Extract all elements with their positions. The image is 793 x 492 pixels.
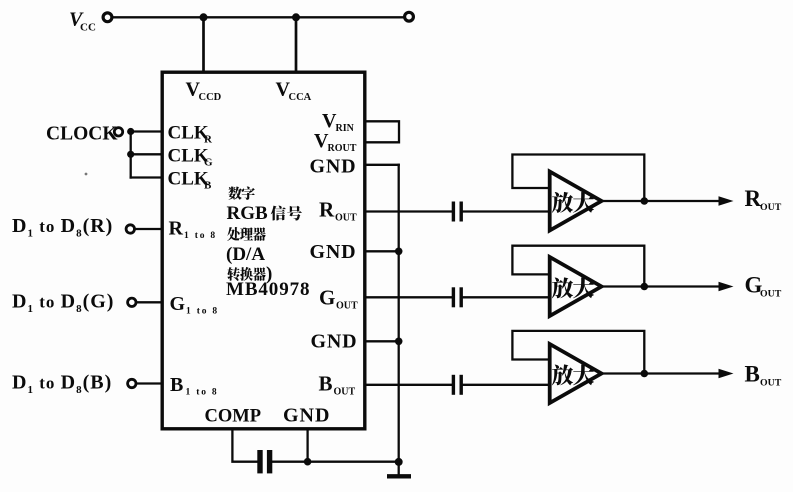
- junction Vcc/Vccd: [200, 13, 208, 21]
- IC U1 MB40978 body: [162, 72, 365, 429]
- wire C2 to amp U3 input: [463, 296, 551, 298]
- svg-text:OUT: OUT: [334, 387, 356, 398]
- svg-text:OUT: OUT: [760, 378, 782, 389]
- svg-text:OUT: OUT: [336, 301, 358, 312]
- wire CLK_R: [131, 130, 162, 132]
- capacitor C2 (G channel): [452, 287, 455, 307]
- svg-text:D1 to D8(B): D1 to D8(B): [12, 372, 112, 397]
- arrow R_OUT: [719, 196, 734, 206]
- svg-text:1 to 8: 1 to 8: [186, 307, 219, 317]
- svg-text:GND: GND: [310, 156, 357, 178]
- terminal D(B): [128, 379, 136, 387]
- junction GND bus bottom: [395, 458, 403, 466]
- svg-text:G: G: [170, 293, 186, 315]
- svg-text:B: B: [170, 374, 183, 396]
- svg-text:CCA: CCA: [289, 92, 312, 103]
- svg-text:OUT: OUT: [760, 202, 782, 213]
- junction CLOCK/CLKG: [127, 151, 134, 158]
- svg-text:R: R: [745, 186, 762, 211]
- capacitor C3 (B channel): [452, 375, 455, 395]
- IC U1 description line1 数字: [228, 187, 242, 200]
- wire C4 to GND: [272, 461, 398, 463]
- arrow G_OUT: [719, 282, 734, 292]
- arrow B_OUT: [719, 369, 734, 379]
- wire GND pin 2: [367, 250, 399, 252]
- svg-text:B: B: [745, 362, 760, 387]
- svg-text:D1 to D8(G): D1 to D8(G): [12, 291, 114, 316]
- wire V_RIN/V_ROUT loop: [367, 121, 400, 142]
- wire U2 feedback loop: [512, 155, 644, 200]
- wire G_OUT to C2: [367, 296, 452, 298]
- op-amp U4: [550, 344, 602, 403]
- svg-text:1 to 8: 1 to 8: [186, 388, 219, 398]
- wire C1 to amp U2 input: [463, 210, 551, 212]
- junction CLOCK/CLKR: [127, 128, 134, 135]
- wire U3 feedback loop: [512, 246, 644, 285]
- wire U4 output: [602, 372, 720, 374]
- svg-text:D1 to D8(R): D1 to D8(R): [12, 215, 113, 240]
- label 放大 on U2: [552, 192, 573, 213]
- wire C3 to amp U4 input: [463, 384, 551, 386]
- svg-text:GND: GND: [310, 241, 357, 263]
- svg-text:ROUT: ROUT: [328, 143, 357, 154]
- op-amp U3: [550, 257, 602, 316]
- terminal D(R): [126, 225, 134, 233]
- wire CLOCK bus vertical: [130, 132, 132, 178]
- svg-text:COMP: COMP: [205, 407, 262, 427]
- IC U1 description line5 转换器): [227, 267, 240, 281]
- svg-text:RGB: RGB: [227, 203, 269, 224]
- junction GND3/bus: [395, 338, 403, 346]
- wire Vcc rail: [113, 16, 403, 18]
- svg-text:R: R: [169, 218, 184, 240]
- svg-text:CLOCK: CLOCK: [46, 124, 118, 145]
- terminal CLOCK: [114, 128, 122, 136]
- wire CLK_B: [131, 176, 162, 178]
- junction GND2/bus: [395, 248, 403, 256]
- capacitor C1 (R channel): [452, 202, 455, 222]
- svg-text:RIN: RIN: [336, 123, 355, 134]
- wire GND pin 1: [367, 164, 399, 166]
- junction U3 output/feedback: [641, 283, 649, 291]
- junction GNDpin/C4: [304, 458, 312, 466]
- svg-text:OUT: OUT: [760, 289, 782, 300]
- svg-text:OUT: OUT: [335, 213, 357, 224]
- label 放大 on U4: [552, 364, 573, 385]
- wire ground stub: [398, 462, 400, 474]
- svg-text:(D/A: (D/A: [226, 244, 265, 265]
- svg-text:CC: CC: [80, 22, 96, 34]
- svg-text:CLK: CLK: [168, 169, 209, 190]
- noise speck: [85, 173, 88, 176]
- wire U4 feedback loop: [512, 331, 644, 372]
- wire D(B) input: [136, 382, 162, 384]
- junction Vcc/Vcca: [292, 13, 300, 21]
- wire COMP pin: [232, 431, 257, 462]
- svg-text:G: G: [319, 286, 335, 310]
- svg-text:G: G: [204, 157, 213, 169]
- svg-text:CLK: CLK: [168, 123, 209, 144]
- wire U2 output: [602, 200, 720, 202]
- wire GND bus vertical: [398, 165, 400, 462]
- svg-text:R: R: [319, 198, 335, 222]
- wire D(R) input: [135, 228, 163, 230]
- junction U2 output/feedback: [641, 197, 649, 205]
- wire Vcca drop: [295, 17, 298, 72]
- svg-text:R: R: [204, 134, 213, 146]
- terminal D(G): [128, 298, 136, 306]
- wire R_OUT to C1: [367, 210, 452, 212]
- wire GND bottom pin: [306, 431, 308, 462]
- svg-text:GND: GND: [283, 405, 330, 427]
- label 放大 on U3: [552, 277, 573, 298]
- svg-text:MB40978: MB40978: [226, 279, 310, 300]
- svg-text:CCD: CCD: [199, 92, 222, 103]
- svg-text:B: B: [319, 372, 333, 396]
- wire GND pin 3: [367, 340, 399, 342]
- wire B_OUT to C3: [367, 384, 452, 386]
- op-amp U2: [550, 172, 602, 231]
- svg-text:B: B: [204, 180, 212, 192]
- svg-text:CLK: CLK: [168, 146, 209, 167]
- wire D(G) input: [136, 301, 162, 303]
- wire CLK_G: [131, 153, 162, 155]
- junction U4 output/feedback: [641, 370, 649, 378]
- IC U1 description line3 处理器: [227, 227, 240, 241]
- svg-text:1 to 8: 1 to 8: [184, 231, 217, 241]
- ground: [387, 474, 411, 478]
- wire Vccd drop: [202, 17, 205, 72]
- wire U3 output: [602, 285, 720, 287]
- terminal top-right: [405, 12, 414, 21]
- svg-text:GND: GND: [311, 330, 358, 352]
- terminal Vcc: [103, 13, 112, 22]
- capacitor C4 (COMP): [257, 450, 262, 473]
